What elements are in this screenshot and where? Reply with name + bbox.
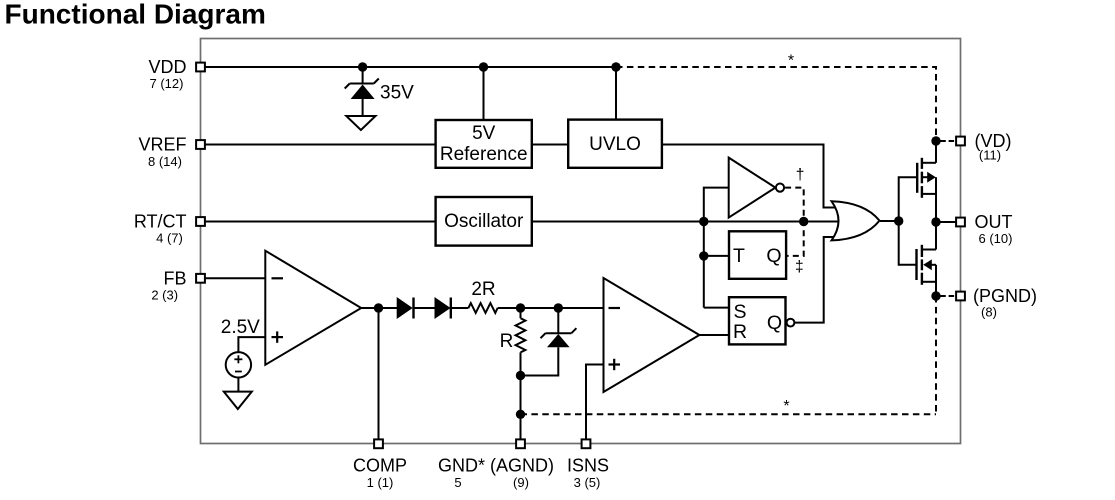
svg-text:†: † — [796, 167, 805, 184]
label VD pin — [975, 131, 1012, 163]
svg-text:(9): (9) — [513, 475, 529, 490]
svg-text:T: T — [733, 245, 745, 267]
label ISNS pin — [567, 456, 609, 491]
wire dashed PGND down (net *) — [935, 296, 937, 414]
svg-text:2 (3): 2 (3) — [151, 288, 178, 303]
wire error amp output — [361, 307, 398, 309]
junction amp output COMP — [374, 303, 383, 312]
svg-text:5V: 5V — [472, 123, 496, 144]
pin PGND — [956, 292, 965, 301]
label PGND pin — [973, 286, 1037, 320]
svg-text:Q: Q — [767, 312, 782, 334]
latch S-R — [729, 297, 794, 344]
svg-text:Reference: Reference — [440, 144, 528, 165]
diode D2 — [435, 298, 451, 319]
label COMP pin — [353, 456, 407, 491]
svg-text:(PGND): (PGND) — [973, 286, 1037, 306]
svg-text:2R: 2R — [471, 279, 495, 300]
node PGND — [931, 291, 940, 300]
wire FB input — [205, 277, 265, 279]
transistor upper MOSFET — [917, 141, 936, 222]
wire dashed VDD to VD (net *) — [616, 67, 936, 141]
junction dashed-osc — [799, 217, 808, 226]
svg-text:(11): (11) — [979, 148, 1001, 163]
wire S input — [704, 307, 729, 309]
IC boundary — [201, 39, 961, 444]
svg-text:GND* (AGND): GND* (AGND) — [438, 456, 554, 476]
wire dashed PGND to pin — [940, 295, 955, 297]
junction clock-T — [699, 251, 708, 260]
wire dashed VD to pin — [940, 140, 955, 142]
label RT/CT pin — [134, 212, 187, 246]
label FB pin — [151, 268, 186, 302]
wire R to GND pin — [520, 376, 522, 441]
wire OR output — [880, 220, 899, 222]
pin FB — [196, 274, 205, 283]
svg-text:UVLO: UVLO — [589, 134, 641, 155]
wire clock rail (inverter/T/S) — [704, 188, 729, 308]
svg-text:4 (7): 4 (7) — [156, 231, 183, 246]
wire VREF line — [205, 144, 436, 146]
label VREF pin — [138, 135, 186, 170]
svg-text:*: * — [788, 53, 794, 70]
label VDD pin — [148, 57, 186, 91]
zener diode (clamp on R) — [521, 308, 577, 376]
wire zener stub — [362, 67, 364, 84]
pin OUT — [956, 218, 965, 227]
pin VREF — [196, 140, 205, 149]
svg-text:OUT: OUT — [975, 212, 1013, 232]
pin VD — [956, 137, 965, 146]
pin GND — [516, 439, 525, 448]
svg-text:‡: ‡ — [795, 259, 804, 276]
svg-text:Q: Q — [766, 245, 781, 267]
wire gate rail — [899, 177, 918, 265]
svg-text:1 (1): 1 (1) — [367, 475, 394, 490]
junction 2R-R — [516, 303, 525, 312]
wire 2R to comparator — [498, 307, 604, 309]
svg-text:2.5V: 2.5V — [221, 317, 260, 338]
node VD — [931, 136, 940, 145]
svg-text:S: S — [733, 301, 746, 323]
block Oscillator — [436, 197, 532, 246]
junction zener top — [554, 303, 563, 312]
comparator current sense — [604, 278, 700, 392]
svg-text:Oscillator: Oscillator — [444, 211, 524, 232]
flip-flop T — [729, 231, 786, 278]
wire COMP branch — [378, 308, 380, 440]
junction VDD-zener — [358, 62, 367, 71]
svg-text:*: * — [783, 398, 789, 415]
svg-text:6 (10): 6 (10) — [979, 231, 1013, 246]
wire oscillator output — [532, 221, 845, 223]
wire 5V Reference to UVLO — [532, 144, 568, 146]
wire dashed GND rail (net *) — [521, 413, 937, 415]
svg-text:(8): (8) — [981, 305, 997, 320]
resistor R — [516, 308, 526, 376]
svg-text:7 (12): 7 (12) — [150, 76, 184, 91]
svg-text:8 (14): 8 (14) — [148, 154, 182, 169]
wire VDD rail — [205, 66, 616, 68]
wire UVLO output to OR gate — [662, 145, 840, 208]
ground (2.5V source) — [224, 392, 252, 409]
pin VDD — [196, 63, 205, 72]
wire dashed inverter output — [785, 188, 804, 256]
svg-text:COMP: COMP — [353, 456, 407, 476]
svg-text:R: R — [733, 321, 747, 343]
pin ISNS — [582, 439, 591, 448]
or-gate — [832, 201, 880, 240]
svg-text:VREF: VREF — [138, 135, 186, 155]
label OUT pin — [975, 212, 1013, 246]
voltage source 2.5V — [221, 317, 266, 392]
transistor lower MOSFET — [917, 222, 937, 296]
svg-text:Functional Diagram: Functional Diagram — [5, 0, 266, 30]
wire OUT to pin — [936, 221, 956, 223]
wire stub to 5V Reference — [483, 67, 485, 120]
svg-text:3 (5): 3 (5) — [574, 475, 601, 490]
wire ISNS input — [586, 365, 604, 441]
inverter (blanking) — [729, 158, 784, 218]
zener diode 35V — [345, 79, 379, 117]
ground (zener) — [346, 116, 375, 130]
svg-text:5: 5 — [454, 475, 461, 490]
node OUT — [931, 217, 940, 226]
svg-text:35V: 35V — [380, 83, 414, 104]
pin COMP — [374, 439, 383, 448]
diode D1 — [397, 298, 413, 319]
resistor 2R — [468, 303, 497, 313]
svg-text:RT/CT: RT/CT — [134, 212, 187, 232]
wire D1-D2 — [414, 307, 436, 309]
block 5V Reference — [436, 120, 532, 168]
wire T input — [704, 255, 729, 257]
label GND pin — [438, 456, 554, 491]
svg-text:ISNS: ISNS — [567, 456, 609, 476]
pin RT/CT — [196, 217, 205, 226]
junction R bottom — [516, 371, 525, 380]
svg-text:FB: FB — [163, 268, 186, 288]
wire comparator output to R input — [699, 334, 729, 336]
junction VDD-5Vref — [479, 62, 488, 71]
wire D2 to 2R — [451, 307, 469, 309]
junction VDD-UVLO — [611, 62, 620, 71]
svg-text:VDD: VDD — [148, 57, 186, 77]
junction GND dashed — [516, 410, 525, 419]
wire SR output to OR gate — [794, 237, 841, 323]
op-amp error amplifier — [205, 251, 361, 365]
junction OR-gates — [894, 216, 903, 225]
wire stub to UVLO — [615, 67, 617, 120]
wire RT/CT line — [205, 221, 436, 223]
svg-text:R: R — [500, 331, 514, 352]
junction clock-osc — [699, 217, 708, 226]
block UVLO — [568, 120, 662, 168]
